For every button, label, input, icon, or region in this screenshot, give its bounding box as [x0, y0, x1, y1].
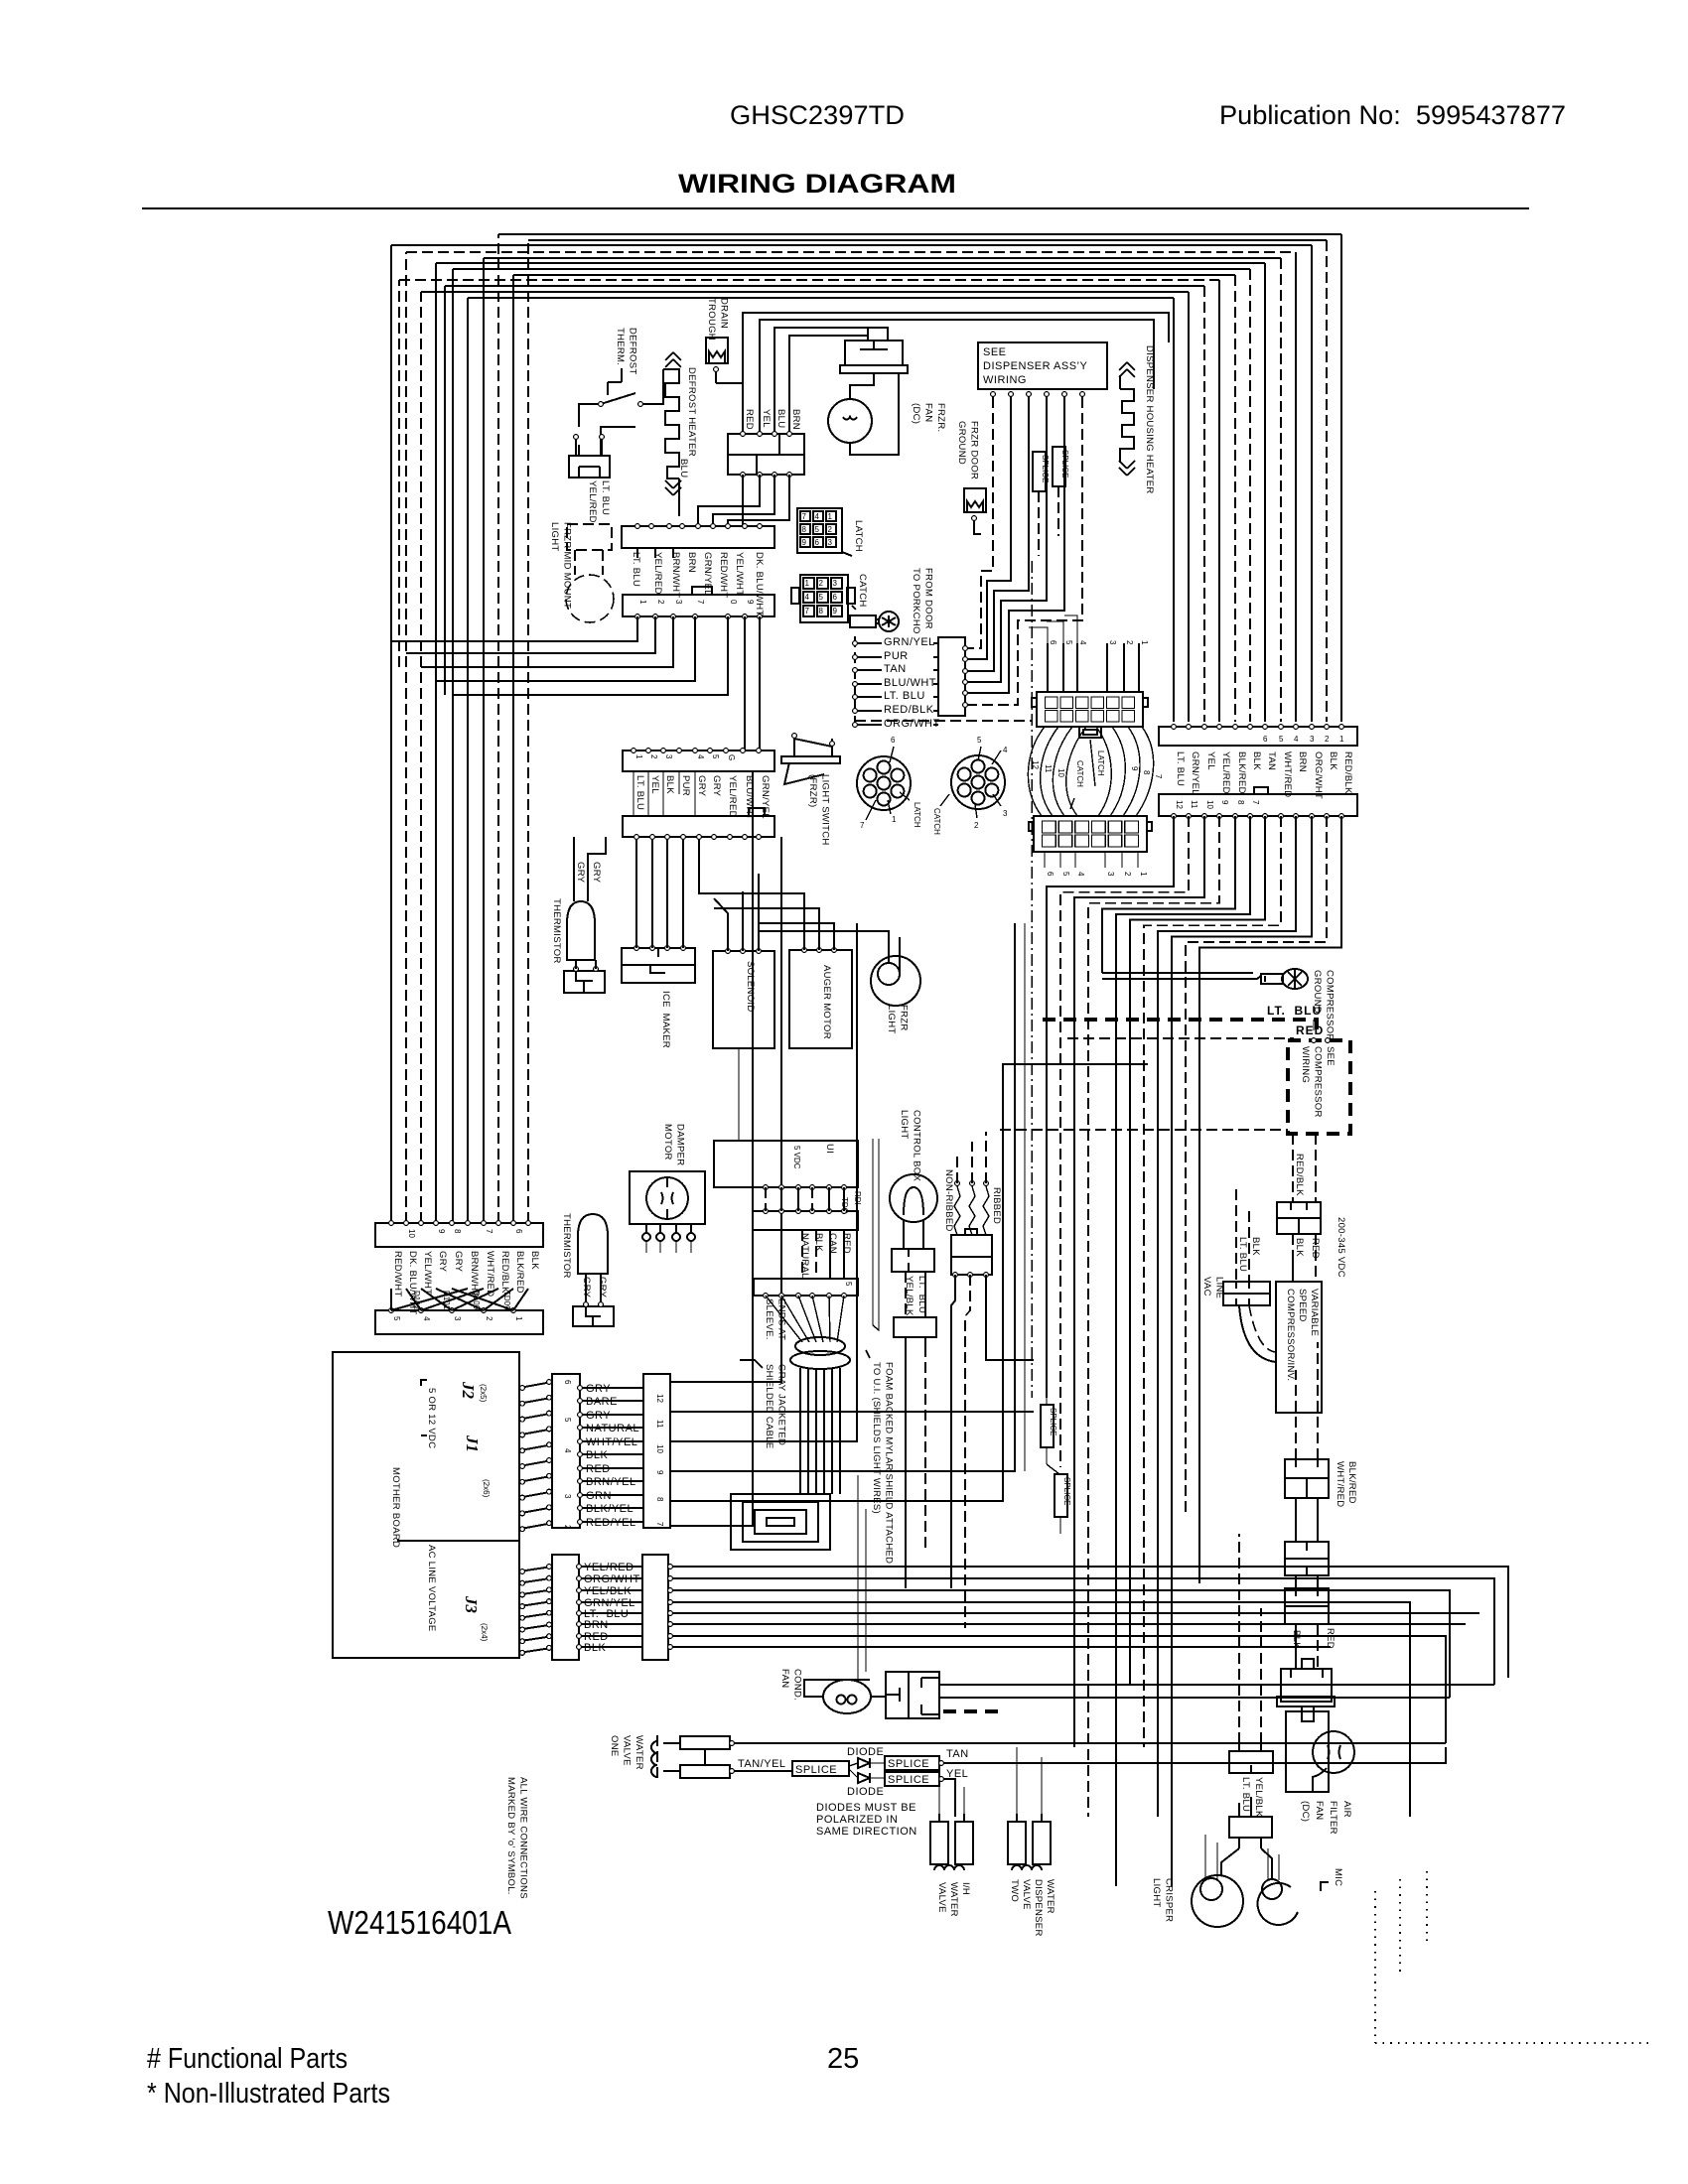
- svg-text:SEE: SEE: [983, 346, 1007, 358]
- wire J3 run 4: [668, 1602, 1410, 1817]
- dispenser housing heater R-DH2: [1120, 375, 1134, 463]
- defrost heater R-DH: [663, 369, 679, 478]
- svg-text:GHSC2397TD: GHSC2397TD: [730, 100, 905, 130]
- wire bus loop 8 right: [1234, 275, 1236, 722]
- wire UI to CN-U1: [765, 1187, 767, 1211]
- svg-text:PUR: PUR: [680, 775, 691, 796]
- wire staircase S5: [1102, 816, 1235, 973]
- svg-text:3: 3: [563, 1494, 572, 1499]
- svg-text:DEFROST HEATER: DEFROST HEATER: [686, 367, 697, 457]
- wire staircase S4: [1088, 816, 1219, 1817]
- frzr light LP4: [871, 956, 920, 1006]
- svg-text:2: 2: [819, 579, 824, 588]
- wire ladder rail dashed stub: [855, 720, 938, 722]
- connector CN-U1: [753, 1211, 858, 1230]
- cond fan motor: [823, 1680, 871, 1713]
- svg-text:9: 9: [802, 538, 807, 547]
- wire bus loop 6 left: [435, 263, 437, 1223]
- svg-text:1: 1: [1139, 872, 1148, 877]
- solenoid box: [713, 951, 774, 1048]
- svg-text:DIODES MUST BE: DIODES MUST BE: [816, 1802, 916, 1814]
- wire ladder boundary: [855, 720, 1033, 722]
- svg-text:THERM.: THERM.: [615, 328, 626, 365]
- svg-text:BRN: BRN: [686, 552, 697, 573]
- wire row B to left bus 5: [452, 616, 728, 695]
- latch tab: [1079, 727, 1101, 738]
- svg-text:3: 3: [453, 1316, 462, 1321]
- svg-text:LINE: LINE: [1214, 1277, 1225, 1298]
- svg-text:3: 3: [1106, 872, 1115, 877]
- wire row B to left bus 4: [436, 616, 695, 681]
- frzr mid mount light LP1 housing: [567, 524, 612, 550]
- svg-text:1: 1: [892, 815, 897, 824]
- splice SP-D1: [1033, 452, 1046, 491]
- crisper light LP3: [1258, 1883, 1298, 1925]
- svg-text:2: 2: [974, 821, 979, 830]
- svg-text:(2x4): (2x4): [480, 1623, 489, 1642]
- diode D2: [858, 1773, 870, 1783]
- wire crisper leads: [1221, 1797, 1272, 1878]
- svg-text:SPLICE: SPLICE: [1062, 1477, 1071, 1505]
- svg-text:FAN: FAN: [1314, 1801, 1325, 1820]
- svg-text:SHIELDED CABLE: SHIELDED CABLE: [764, 1364, 774, 1449]
- svg-text:(FRZR): (FRZR): [807, 774, 818, 807]
- svg-text:4: 4: [422, 1316, 431, 1321]
- svg-text:BLK/RED: BLK/RED: [1236, 751, 1247, 794]
- wire bus loop 11 top: [421, 291, 1189, 293]
- diode D1: [858, 1758, 870, 1768]
- connector TH1 bottom: [564, 971, 605, 993]
- wire bus loop 12 right: [1173, 298, 1175, 722]
- wire bus loop 12 top: [468, 297, 1174, 299]
- connector CN-N2: [951, 1257, 992, 1275]
- svg-text:5: 5: [563, 1418, 572, 1423]
- svg-text:5: 5: [392, 1316, 401, 1321]
- svg-text:(DC): (DC): [1300, 1801, 1311, 1822]
- light switch SW-F: [781, 756, 840, 763]
- svg-text:DK. BLU/WHT: DK. BLU/WHT: [754, 552, 765, 616]
- svg-text:10: 10: [1205, 800, 1214, 809]
- wire bus loop 2 right: [1326, 240, 1328, 722]
- svg-text:LATCH: LATCH: [1096, 751, 1105, 776]
- svg-text:LIGHT SWITCH: LIGHT SWITCH: [820, 774, 831, 846]
- svg-text:ONE: ONE: [609, 1735, 620, 1757]
- wire CN-F down: [698, 475, 789, 526]
- svg-text:TWO: TWO: [1009, 1879, 1020, 1902]
- svg-text:AUGER MOTOR: AUGER MOTOR: [821, 965, 832, 1039]
- svg-text:GRN/YEL: GRN/YEL: [1190, 751, 1200, 795]
- wire J12 runs right: [670, 837, 781, 1382]
- svg-text:UI: UI: [824, 1144, 835, 1154]
- svg-text:J1: J1: [463, 1434, 482, 1452]
- thermistor TH2: [578, 1214, 608, 1274]
- wire bus loop 10 top: [445, 285, 1204, 287]
- wire J3 run 2: [668, 1578, 1494, 1685]
- wire air filter leads: [1295, 1624, 1297, 1669]
- splice SP-B2: [885, 1756, 939, 1770]
- svg-text:RED: RED: [744, 409, 755, 430]
- svg-text:(2x6): (2x6): [482, 1479, 491, 1498]
- connector CN-D: [623, 816, 774, 837]
- svg-text:9: 9: [1220, 800, 1229, 805]
- svg-text:WHT/RED: WHT/RED: [1335, 1461, 1345, 1507]
- svg-text:COND.: COND.: [792, 1669, 803, 1701]
- svg-text:GROUND: GROUND: [956, 421, 967, 465]
- wire bundle W-top3: [774, 328, 888, 434]
- svg-text:LATCH: LATCH: [853, 520, 864, 552]
- wire bus loop 10 left: [444, 286, 446, 695]
- shielded cable sleeve: [795, 1337, 845, 1355]
- connector CN-C1: [1229, 1751, 1273, 1773]
- svg-text:1: 1: [514, 1316, 523, 1321]
- wire bus loop 4 top: [406, 251, 1296, 253]
- svg-text:SPLICE: SPLICE: [1049, 1408, 1057, 1435]
- dotted guide vertical 3: [1426, 1871, 1428, 1941]
- svg-text:9: 9: [655, 1470, 664, 1475]
- svg-text:TO PORKCHOP: TO PORKCHOP: [911, 568, 921, 640]
- wire bus loop 3 left: [390, 245, 392, 1223]
- variable speed compressor box: [1276, 1282, 1322, 1413]
- wire row B to left bus 1: [391, 616, 637, 641]
- wire bus loop 12 left: [467, 298, 469, 1223]
- wire dash-dot corridor: [1031, 561, 1033, 1398]
- wire cable bundle: [799, 1368, 801, 1494]
- wire cond fan right: [939, 1684, 1494, 1686]
- wire J3 run 1: [668, 1567, 1508, 1678]
- svg-text:RED/WHT: RED/WHT: [718, 552, 729, 598]
- svg-text:11: 11: [655, 1420, 664, 1429]
- svg-text:THERMISTOR: THERMISTOR: [561, 1213, 572, 1279]
- connector CN-J3R: [642, 1555, 668, 1660]
- svg-text:6: 6: [1046, 872, 1055, 877]
- svg-text:PUR: PUR: [884, 650, 909, 662]
- svg-text:ORG/WHT: ORG/WHT: [1313, 751, 1324, 799]
- connector CN-F: [728, 434, 804, 475]
- svg-text:FROM DOOR: FROM DOOR: [923, 568, 934, 629]
- frzr fan M1 box: [845, 341, 903, 365]
- frzr fan motor M1: [828, 399, 872, 443]
- svg-text:TO U.I. (SHIELDS LIGHT WIRES): TO U.I. (SHIELDS LIGHT WIRES): [871, 1362, 882, 1514]
- svg-text:0: 0: [729, 600, 738, 605]
- wire bus loop 7 left: [452, 269, 454, 1223]
- wire linevac curve: [1239, 1305, 1276, 1362]
- svg-text:BLK: BLK: [813, 1233, 824, 1252]
- svg-text:RED/WHT: RED/WHT: [392, 1251, 403, 1297]
- wire staircase S9: [1158, 816, 1296, 1817]
- svg-text:# Functional Parts: # Functional Parts: [147, 2043, 348, 2075]
- wire ladder rungs: [855, 642, 938, 644]
- svg-text:YEL/BLK: YEL/BLK: [1253, 1777, 1264, 1818]
- wire CN-N2 leads: [951, 1275, 955, 1588]
- svg-text:8: 8: [802, 525, 807, 534]
- svg-text:CRISPER: CRISPER: [1164, 1878, 1175, 1922]
- svg-text:3: 3: [828, 538, 833, 547]
- connector CN-W2: [1285, 1542, 1329, 1575]
- svg-text:3: 3: [674, 600, 683, 605]
- wire corridor horizontal 1: [1002, 1063, 1148, 1065]
- wire comp LT.BLU: [1043, 1020, 1317, 1030]
- svg-text:AIR: AIR: [1341, 1801, 1352, 1818]
- wire staircase S11: [1186, 816, 1327, 1517]
- svg-text:BRN/WHT: BRN/WHT: [670, 552, 681, 598]
- wire splice arrows: [1047, 1394, 1060, 1534]
- svg-text:6: 6: [563, 1380, 572, 1385]
- svg-text:ICE MAKER: ICE MAKER: [660, 991, 671, 1048]
- air filter fan motor: [1313, 1731, 1354, 1773]
- wire bus loop 5 right: [1280, 258, 1282, 722]
- svg-text:TROUGH: TROUGH: [706, 298, 717, 341]
- svg-text:BLK: BLK: [529, 1251, 540, 1270]
- svg-text:SAME DIRECTION: SAME DIRECTION: [816, 1826, 917, 1838]
- svg-text:YEL/WHT: YEL/WHT: [734, 552, 745, 596]
- svg-text:5: 5: [1064, 640, 1073, 645]
- svg-text:DAMPER: DAMPER: [675, 1124, 686, 1165]
- wire comp RED: [1067, 1038, 1293, 1040]
- svg-text:LT. BLU: LT. BLU: [1175, 751, 1186, 786]
- svg-text:LT. BLU: LT. BLU: [1237, 1237, 1248, 1272]
- connector CN-W1: [1285, 1459, 1329, 1498]
- svg-text:9: 9: [1130, 766, 1139, 771]
- wire CN-X2 leads: [905, 1272, 907, 1317]
- crisper light LP2: [1192, 1875, 1243, 1927]
- svg-text:2: 2: [656, 600, 665, 605]
- frzr door ground heater H2: [964, 488, 986, 512]
- wire staircase S7: [1130, 816, 1265, 1685]
- wire ribbed top leads: [957, 1132, 986, 1183]
- frzr mid mount light LP1 bulb: [566, 575, 614, 622]
- svg-text:2: 2: [563, 1525, 572, 1530]
- svg-text:DIODE: DIODE: [847, 1746, 884, 1758]
- svg-text:(DC): (DC): [911, 403, 921, 424]
- wire cond fan up: [858, 1475, 866, 1680]
- wire latch upper leads: [1047, 643, 1049, 692]
- see dispenser assy wiring box: [978, 342, 1107, 389]
- svg-text:COMPRESSOR: COMPRESSOR: [1325, 970, 1336, 1041]
- wire J12 cross: [580, 1387, 643, 1389]
- svg-text:COMPRESSOR: COMPRESSOR: [1313, 1046, 1324, 1118]
- svg-text:FRZR: FRZR: [899, 1005, 910, 1031]
- svg-text:MOTHER BOARD: MOTHER BOARD: [390, 1467, 401, 1548]
- svg-text:YEL: YEL: [1205, 751, 1216, 770]
- svg-text:AC LINE VOLTAGE: AC LINE VOLTAGE: [426, 1545, 437, 1632]
- svg-text:GRY: GRY: [696, 775, 707, 797]
- wire bus loop 9 right: [1218, 280, 1220, 722]
- control box light LP5: [890, 1174, 937, 1222]
- svg-text:FAN: FAN: [779, 1669, 790, 1688]
- svg-text:1: 1: [828, 512, 833, 521]
- wire bus loop 3 right: [1311, 245, 1313, 722]
- svg-text:9: 9: [437, 1229, 446, 1234]
- svg-text:(2x5): (2x5): [479, 1384, 488, 1403]
- wire LP5 leads: [904, 1220, 923, 1249]
- wire vsc mid: [1293, 1234, 1316, 1282]
- defrost thermostat DT1: [579, 404, 601, 427]
- svg-text:CATCH: CATCH: [932, 808, 941, 835]
- wire bus loop 1 left: [497, 234, 499, 1223]
- rule under title: [142, 207, 1529, 209]
- svg-text:4: 4: [1003, 746, 1008, 754]
- wire latch lower leads: [1044, 852, 1046, 868]
- wire fan MB to J3: [519, 1567, 552, 1571]
- svg-text:11: 11: [1190, 800, 1198, 809]
- svg-text:6: 6: [514, 1229, 523, 1234]
- connector CN-J3L: [552, 1555, 579, 1660]
- svg-text:5: 5: [977, 736, 982, 745]
- svg-text:1: 1: [634, 754, 643, 759]
- svg-text:7: 7: [1154, 774, 1163, 779]
- svg-text:5 VDC: 5 VDC: [792, 1146, 801, 1169]
- wire staircase S6: [1116, 816, 1250, 1886]
- dotted guide horizontal: [1375, 2042, 1653, 2044]
- svg-text:1: 1: [1339, 735, 1344, 744]
- mother board box: [333, 1352, 519, 1658]
- wire bus loop 4 right: [1295, 252, 1297, 722]
- damper motor pins: [642, 1233, 650, 1241]
- wire bus loop 9 left: [398, 280, 400, 667]
- svg-text:9: 9: [746, 600, 755, 605]
- thermistor TH1: [567, 901, 595, 960]
- wire bus loop 2 top: [528, 239, 1327, 241]
- svg-text:LT. BLU: LT. BLU: [631, 552, 641, 587]
- wire bus loop 3 top: [391, 244, 1312, 246]
- dotted guide vertical 2: [1399, 1879, 1401, 1974]
- svg-text:LT. BLU: LT. BLU: [634, 775, 645, 810]
- svg-text:2: 2: [1123, 872, 1132, 877]
- svg-text:D102: D102: [412, 1291, 421, 1310]
- splice SP-B3: [885, 1772, 939, 1786]
- svg-text:LIGHT: LIGHT: [899, 1110, 910, 1139]
- wire bus loop 5 top: [484, 257, 1281, 259]
- wire staircase S2: [1060, 816, 1189, 1467]
- svg-text:TD09: TD09: [502, 1291, 511, 1310]
- connector latch 12-cell lower: [1034, 816, 1147, 852]
- svg-text:ALL WIRE CONNECTIONS: ALL WIRE CONNECTIONS: [518, 1777, 529, 1899]
- wire bus loop 7 right: [1249, 269, 1251, 722]
- svg-text:8: 8: [453, 1229, 462, 1234]
- wire bus loop 1 top: [498, 233, 1341, 235]
- svg-text:5 OR 12 VDC: 5 OR 12 VDC: [426, 1388, 437, 1448]
- svg-text:6: 6: [1049, 640, 1057, 645]
- wire CN-U1 to CN-U2: [802, 1230, 816, 1279]
- wire bundle W-top4: [789, 336, 868, 434]
- svg-text:DRAIN: DRAIN: [719, 298, 730, 329]
- svg-text:4: 4: [805, 593, 810, 602]
- svg-text:10: 10: [407, 1229, 416, 1238]
- wire TH1 leads: [574, 837, 606, 901]
- connector CN-C2: [1229, 1817, 1272, 1838]
- wire TH2 leads: [586, 1274, 601, 1306]
- connector CN-R1: [1159, 727, 1357, 746]
- svg-text:6: 6: [815, 538, 820, 547]
- svg-text:TAN: TAN: [884, 663, 907, 675]
- svg-text:SPLICE: SPLICE: [888, 1758, 929, 1770]
- svg-text:7: 7: [696, 600, 705, 605]
- svg-text:BRN: BRN: [790, 409, 801, 430]
- svg-text:5: 5: [844, 1282, 853, 1287]
- svg-text:7: 7: [655, 1522, 664, 1527]
- svg-text:6: 6: [833, 593, 838, 602]
- terminal compressor ground: [1102, 973, 1261, 979]
- wire bus loop 11 left: [420, 292, 422, 1223]
- wire bus loop 8 top: [513, 274, 1235, 276]
- svg-text:GRY: GRY: [437, 1251, 448, 1273]
- connector circular CC2: [951, 755, 1005, 809]
- wire J3 run 6: [668, 1623, 1466, 1625]
- wire bus loop 1 right: [1340, 234, 1342, 722]
- drain trough heater H1: [706, 338, 728, 363]
- svg-text:SPLICE: SPLICE: [1060, 450, 1069, 478]
- svg-text:CATCH: CATCH: [857, 574, 868, 608]
- svg-text:VARIABLE: VARIABLE: [1309, 1289, 1320, 1336]
- wire row B down 6: [744, 616, 746, 751]
- connector latch grid LG1: [797, 508, 842, 553]
- svg-text:8: 8: [1236, 800, 1245, 805]
- connector CN-L1: [569, 456, 610, 478]
- wire UI feeds: [739, 1048, 753, 1141]
- connector TH2 bottom: [573, 1306, 614, 1326]
- wire ice maker leads: [635, 837, 637, 948]
- svg-text:10: 10: [1056, 768, 1065, 777]
- connector CN-N1: [951, 1235, 992, 1257]
- labels ladder: [882, 634, 933, 645]
- wire row A internal stubs: [637, 548, 673, 558]
- connector latch 12-cell upper: [1037, 692, 1143, 727]
- svg-text:VALVE: VALVE: [622, 1735, 633, 1766]
- svg-text:4: 4: [1076, 872, 1085, 877]
- wire bus loop 7 top: [453, 268, 1250, 270]
- dotted guide vertical 1: [1374, 1891, 1376, 2043]
- svg-text:* Non-Illustrated Parts: * Non-Illustrated Parts: [147, 2078, 390, 2110]
- svg-text:10: 10: [655, 1444, 664, 1453]
- svg-text:SOLENOID: SOLENOID: [745, 961, 756, 1013]
- wire corridor vertical 2: [1024, 923, 1026, 1471]
- svg-text:SEE: SEE: [1325, 1046, 1336, 1066]
- connector CN-U2: [754, 1279, 858, 1296]
- svg-text:J3: J3: [462, 1595, 481, 1614]
- svg-text:DEFROST: DEFROST: [628, 328, 638, 375]
- svg-text:2: 2: [485, 1316, 493, 1321]
- svg-text:G: G: [727, 754, 736, 760]
- svg-text:LT. BLU: LT. BLU: [884, 690, 925, 702]
- splice SP-M2: [1055, 1474, 1067, 1517]
- svg-text:7: 7: [860, 821, 865, 830]
- svg-text:12: 12: [1031, 760, 1040, 769]
- svg-text:GRY: GRY: [711, 775, 722, 797]
- connector catch grid LG2: [800, 575, 848, 622]
- splice SP-D2: [1053, 447, 1065, 486]
- wire fan to cable: [766, 1296, 802, 1342]
- svg-text:DISPENSER ASS’Y: DISPENSER ASS’Y: [983, 360, 1087, 372]
- svg-text:11: 11: [1044, 764, 1053, 773]
- svg-text:WATER: WATER: [1045, 1879, 1055, 1914]
- svg-text:TAN: TAN: [946, 1748, 969, 1760]
- svg-text:YEL/RED: YEL/RED: [652, 552, 663, 595]
- labels J1/J2 wires: [584, 1383, 607, 1395]
- svg-text:1: 1: [805, 579, 810, 588]
- wire solenoid leads: [714, 874, 759, 951]
- svg-text:BLK: BLK: [1328, 751, 1338, 770]
- svg-text:8: 8: [1142, 770, 1151, 775]
- svg-text:25: 25: [827, 2043, 859, 2075]
- svg-text:RED/BLK: RED/BLK: [499, 1251, 510, 1294]
- svg-text:5: 5: [815, 525, 820, 534]
- wire latch fan curves: [1028, 727, 1045, 816]
- svg-text:GRN/YEL: GRN/YEL: [884, 636, 935, 648]
- connector CN-J12L: [552, 1374, 580, 1528]
- wire bus loop 8 left: [512, 275, 514, 1223]
- mother board divider: [397, 1540, 519, 1542]
- wire bus loop 11 right: [1188, 292, 1190, 722]
